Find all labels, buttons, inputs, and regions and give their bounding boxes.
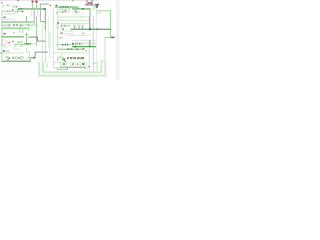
three pale wires mid	[58, 16, 90, 17]
pale vertical x49.8	[49, 32, 50, 58]
pale wire y52.8 right	[54, 52, 90, 53]
dark tick on wire	[22, 11, 23, 12]
text marks	[92, 8, 95, 9]
wire y49.2	[58, 49, 84, 50]
wire y61.2	[1, 61, 31, 62]
pale wire y43 right	[84, 43, 96, 44]
faint glyphs right	[92, 62, 97, 64]
pale wire y33.6	[63, 33, 72, 34]
dark tick on wire	[60, 37, 61, 38]
smudge below box	[4, 46, 7, 48]
component box bars top mid	[62, 8, 63, 11]
wire right vertical	[110, 10, 111, 38]
white box component	[3, 40, 6, 45]
pale squares on wire	[7, 10, 9, 12]
junction dot	[28, 24, 29, 25]
vertical x30.4 down	[30, 57, 31, 61]
component blob	[8, 4, 10, 6]
wire y28.1	[2, 28, 29, 29]
tiny marks	[86, 67, 88, 68]
nested right verticals	[97, 62, 99, 72]
junction dots	[74, 46, 76, 48]
component row left y55-60	[5, 56, 8, 58]
stub x67.4	[67, 67, 68, 70]
label smudge	[12, 5, 16, 8]
background	[0, 0, 120, 80]
white box with red pin	[8, 24, 11, 27]
label smudge	[2, 5, 4, 7]
wire left top	[2, 11, 23, 12]
dark red mark	[56, 5, 58, 7]
green glyphs	[19, 24, 23, 26]
dark mark left of nested	[88, 66, 90, 67]
tiny dark mark	[72, 0, 73, 1]
top frame edge	[0, 0, 97, 2]
smudge under wire	[14, 12, 19, 13]
vertical stubs	[18, 28, 21, 33]
green smudge above	[82, 33, 85, 35]
vertical x26.5 lower	[26, 33, 27, 44]
junction dot wire y43.8	[27, 43, 29, 45]
wire y67.4	[60, 67, 85, 68]
right page edge shading	[117, 0, 121, 80]
pale vertical x42.3	[42, 24, 43, 72]
wire y37.8	[58, 37, 64, 38]
text smudge	[73, 11, 75, 13]
staircase pale	[26, 48, 27, 52]
red pin 2	[13, 41, 14, 42]
nested frame outer bottom	[38, 75, 106, 77]
dark instance bottom bar	[85, 4, 94, 5]
dark label R	[4, 17, 6, 19]
wire y46.6	[72, 46, 96, 47]
vertical x26.5 upper	[26, 16, 27, 22]
darker segment	[96, 29, 99, 30]
rail x36.4 lower	[35, 16, 38, 46]
faint wire y40.3	[72, 39, 96, 42]
red dot	[62, 29, 63, 31]
pale blob endpoint	[100, 60, 105, 62]
dark tick under bus	[75, 10, 76, 11]
green smudge + red	[81, 48, 83, 50]
junction blob	[89, 28, 91, 30]
nested frame inner bottom	[42, 71, 101, 73]
bus jog vertical	[77, 6, 78, 9]
pale wire under	[58, 12, 70, 13]
red pins row	[9, 58, 10, 60]
pale wire	[4, 13, 16, 14]
pin wire A	[31, 3, 34, 9]
wire top right	[96, 10, 111, 11]
pale vertical x104.8	[104, 37, 105, 75]
wire y52.8 mid	[12, 52, 24, 53]
dark wire y37.1	[28, 37, 37, 38]
red pins instance	[88, 2, 90, 4]
dark text row y57-59	[67, 57, 84, 59]
dark glyphs	[13, 24, 15, 26]
faint vertical x31.7	[30, 10, 33, 16]
red pin B	[35, 1, 38, 3]
gray stub	[17, 9, 18, 13]
pale wire y31	[60, 31, 72, 32]
red pin small	[12, 9, 13, 10]
wire stub red label right	[104, 37, 111, 38]
mid text cluster	[57, 56, 64, 58]
dark wire y52.1	[35, 52, 48, 53]
dark mark	[64, 61, 66, 62]
wire y52.8 left	[0, 52, 12, 53]
text under	[27, 25, 32, 27]
faint row	[13, 49, 20, 50]
text ticks on bus	[61, 6, 62, 8]
wire vertical x89.9 green top	[89, 8, 90, 16]
text row y42.5-45 right	[72, 43, 74, 45]
component row1 left smudges	[2, 24, 7, 26]
faint wire	[72, 13, 84, 16]
faint vertical x37.6	[36, 10, 39, 16]
cross tick x27	[25, 34, 28, 35]
pale rails	[47, 16, 50, 48]
red pin small mid	[50, 5, 51, 6]
wire y43.8 pale	[31, 43, 36, 44]
dark tick	[60, 32, 63, 34]
component boxes row y62-66	[62, 62, 66, 66]
left wire y44.3	[14, 44, 24, 45]
wire y43.8 bright	[24, 43, 31, 44]
gray blob	[56, 12, 58, 13]
text inside	[59, 8, 70, 10]
dots in boxes	[63, 63, 65, 65]
green text clusters	[14, 56, 18, 60]
dark label	[13, 32, 14, 33]
red dot mid	[64, 59, 65, 60]
dark tick on bus seg2	[82, 8, 84, 10]
text smudge	[78, 11, 80, 13]
corner down x84.8	[84, 67, 85, 69]
wire y44.4 with text	[56, 44, 72, 45]
red pin A	[32, 1, 34, 3]
wire y24.8	[20, 24, 37, 25]
dark wire y41.3	[37, 41, 46, 42]
tick on top edge	[17, 0, 19, 1]
gray box low mid	[53, 62, 60, 68]
pale wire y35.3	[66, 35, 90, 36]
components above bus right	[73, 24, 76, 26]
gray mark	[85, 50, 87, 51]
dark tick	[16, 6, 17, 7]
dark vertical x34	[34, 10, 35, 24]
dark instance verticals	[86, 0, 89, 5]
bus dark segment	[18, 8, 23, 9]
red dot in box	[65, 10, 66, 11]
red pin box	[7, 41, 11, 45]
label smudge	[3, 33, 5, 34]
pin wire B	[35, 3, 38, 10]
small wire stub	[60, 27, 63, 28]
gray vertical x89.7 lower	[89, 40, 90, 47]
dark vertical x89.7	[89, 16, 90, 30]
tick small	[81, 16, 82, 17]
wire y36.8	[2, 36, 25, 37]
cross tick x36.5	[35, 26, 38, 27]
green verticals under instance	[93, 5, 96, 7]
red label right	[111, 37, 115, 39]
stubs down	[73, 26, 76, 29]
pale vertical x72	[72, 30, 73, 36]
nested frame inner2 vertical	[46, 62, 48, 68]
dark glyph	[76, 11, 77, 13]
dark vertical x35.1	[35, 52, 36, 58]
nested frame inner L vertical	[42, 62, 44, 73]
label row y50 left	[3, 50, 5, 52]
dark corner horizontal	[40, 3, 49, 6]
vertical rail x57.7	[57, 7, 58, 50]
pale continuation	[45, 30, 46, 62]
stub below box	[56, 68, 59, 70]
wire row2 left	[2, 21, 33, 22]
top mid bus seg2	[72, 8, 91, 9]
corner down x61.7	[61, 52, 62, 56]
dark blob	[57, 22, 59, 24]
component blob	[6, 4, 8, 6]
dark tick	[62, 11, 63, 12]
dark vertical	[39, 4, 42, 22]
bus top	[18, 8, 45, 9]
green text right of pins	[17, 41, 23, 43]
wire y57.7	[28, 57, 35, 58]
main vertical rail mid	[45, 9, 46, 30]
corner rails mid pale	[55, 24, 58, 28]
dark vertical x37.4	[37, 37, 38, 42]
L corner wire x53.5	[53, 62, 54, 68]
text row mid	[60, 25, 70, 27]
pale vertical x89.2 low	[89, 47, 90, 72]
dark glyph top-left	[1, 2, 2, 3]
green link wire	[41, 21, 46, 22]
stub down x28.4	[27, 28, 30, 31]
junction	[34, 57, 36, 59]
nested frame outer L vertical	[38, 62, 40, 77]
right rail x93.2	[93, 16, 94, 72]
gray T symbol	[95, 4, 99, 5]
top mid bus seg1	[55, 6, 78, 7]
dark green ticks on wire	[67, 48, 69, 50]
bus junction blob	[44, 8, 46, 10]
left rail	[1, 10, 2, 61]
pale wire y45.2	[84, 45, 96, 46]
faint page line vertical	[95, 8, 98, 70]
main bus y29.3	[71, 29, 111, 30]
short pale wire below	[96, 12, 102, 13]
wire y69.4	[57, 69, 68, 70]
pale wire	[3, 19, 15, 20]
